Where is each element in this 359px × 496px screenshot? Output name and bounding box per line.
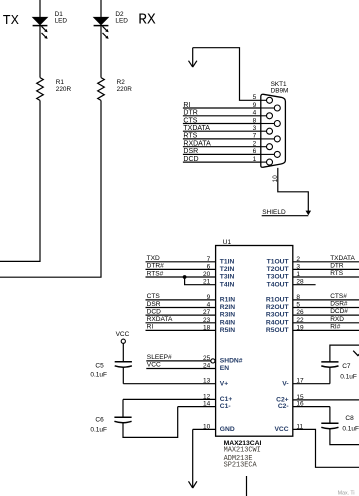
svg-text:8: 8 <box>296 294 300 301</box>
svg-text:18: 18 <box>203 324 211 331</box>
svg-text:C2-: C2- <box>278 403 289 410</box>
svg-text:R2: R2 <box>117 79 126 86</box>
svg-text:GND: GND <box>220 426 235 433</box>
svg-text:CTS: CTS <box>147 293 161 300</box>
net label RI / wire to U1 pin 18 (R5IN) <box>146 324 216 331</box>
inversion bubble on SHDN# pin 25 <box>211 359 215 363</box>
svg-text:28: 28 <box>296 279 304 286</box>
svg-text:3: 3 <box>253 125 257 132</box>
svg-text:1: 1 <box>253 156 257 163</box>
svg-text:VCC: VCC <box>274 426 288 433</box>
svg-text:RXD: RXD <box>330 316 344 323</box>
net label DCD / wire to U1 pin 27 (R3IN) <box>146 308 216 315</box>
svg-text:T4IN: T4IN <box>220 281 235 288</box>
net label VCC / wire to U1 pin 24 (EN) <box>146 362 215 369</box>
svg-text:8: 8 <box>253 117 257 124</box>
net label DSR / wire to U1 pin 4 (R2IN) <box>146 301 216 308</box>
svg-text:VCC: VCC <box>116 331 130 338</box>
svg-text:T1OUT: T1OUT <box>267 258 290 265</box>
wire stub below U1 <box>246 476 248 496</box>
svg-text:RX: RX <box>138 13 156 29</box>
svg-text:R1OUT: R1OUT <box>266 297 290 304</box>
wire DB9 shell to SHIELD <box>278 168 309 214</box>
svg-text:26: 26 <box>296 309 304 316</box>
svg-text:C6: C6 <box>95 416 104 423</box>
capacitor C7 <box>321 362 338 367</box>
svg-text:VCC: VCC <box>147 362 161 369</box>
label D1 <box>55 11 68 24</box>
resistor R2 220R <box>98 78 105 101</box>
net label TXDATA / wire to DB9 pin 3 <box>183 125 261 132</box>
label C5 <box>90 362 107 378</box>
net label RXDATA / wire to DB9 pin 2 <box>183 141 261 148</box>
svg-text:R2IN: R2IN <box>220 304 235 311</box>
svg-text:U1: U1 <box>223 239 232 246</box>
svg-text:0.1uF: 0.1uF <box>340 374 357 381</box>
net label DTR# / wire to U1 pin 6 (T2IN) <box>146 263 216 270</box>
wire U1 pin 8 (R1OUT) <box>293 299 359 301</box>
wire D1 anode <box>39 0 41 17</box>
wire U1 pin 17 (V-) <box>293 383 330 385</box>
wire U1 pin 3 (T2OUT) <box>293 268 359 270</box>
svg-text:T2IN: T2IN <box>220 266 235 273</box>
svg-text:T3IN: T3IN <box>220 274 235 281</box>
svg-text:T2OUT: T2OUT <box>267 266 290 273</box>
wire VCC to C5 <box>122 343 124 362</box>
svg-text:T4OUT: T4OUT <box>267 281 290 288</box>
wire D2 cathode to R2 <box>100 26 102 78</box>
svg-text:Max. Ti: Max. Ti <box>338 491 355 496</box>
svg-text:RXDATA: RXDATA <box>147 316 173 323</box>
wire U1 pin 1 (T3OUT) <box>293 276 359 278</box>
svg-text:EN: EN <box>220 365 229 372</box>
svg-text:C1-: C1- <box>220 403 231 410</box>
svg-text:T3OUT: T3OUT <box>267 274 290 281</box>
DB9 pin circles right column (pins 9,8,7,6) <box>261 105 281 157</box>
svg-text:11: 11 <box>296 423 303 430</box>
svg-text:10: 10 <box>272 175 279 183</box>
svg-text:CTS#: CTS# <box>330 293 347 300</box>
wire C5 to V+ <box>122 368 124 384</box>
wire C1- pin 14 <box>178 406 216 408</box>
svg-text:R3IN: R3IN <box>220 312 235 319</box>
svg-text:0.1uF: 0.1uF <box>90 426 107 433</box>
svg-text:R1IN: R1IN <box>220 297 235 304</box>
svg-text:V-: V- <box>282 380 288 387</box>
label D2 <box>115 11 128 24</box>
wire U1 pin 2 (T1OUT) <box>293 261 359 263</box>
svg-text:DTR#: DTR# <box>147 263 165 270</box>
svg-text:R1: R1 <box>56 79 65 86</box>
svg-text:C8: C8 <box>345 415 354 422</box>
shield arrowhead <box>306 211 312 216</box>
net label DSR / wire to DB9 pin 6 <box>183 148 261 155</box>
svg-text:24: 24 <box>203 363 211 370</box>
capacitor C5 <box>115 362 132 367</box>
svg-text:RTS: RTS <box>330 270 344 277</box>
net label CTS / wire to U1 pin 9 (R1IN) <box>146 293 216 300</box>
DB9 pin circles left column (pins 5,4,3,2,1) <box>261 97 273 165</box>
resistor R1 220R <box>37 78 44 101</box>
svg-text:0.1uF: 0.1uF <box>90 371 107 378</box>
label R1 <box>56 79 72 93</box>
svg-text:2: 2 <box>296 256 300 263</box>
svg-text:2: 2 <box>253 141 257 148</box>
wire top rail to C7 <box>330 345 359 362</box>
net label SLEEP# / wire to U1 pin 25 (SHDN#) <box>146 354 210 361</box>
wire R2 to left edge <box>0 100 101 277</box>
svg-text:TX: TX <box>3 14 19 29</box>
LED D2 <box>94 17 109 39</box>
svg-text:LED: LED <box>115 17 128 24</box>
wire R1 to left edge <box>0 100 40 261</box>
net label RI / wire to DB9 pin 9 <box>183 102 261 109</box>
svg-text:23: 23 <box>203 317 211 324</box>
wire ground to DB9 pin 5 <box>193 48 261 101</box>
connector SKT1 DB9M outline <box>261 94 286 167</box>
net label RXDATA / wire to U1 pin 23 (R4IN) <box>146 316 216 323</box>
wire RTS# to T4IN pin 21 <box>185 277 216 285</box>
stub wire U1 pin 28 (T4OUT) <box>293 284 316 286</box>
svg-text:SHIELD: SHIELD <box>262 209 286 216</box>
power symbol VCC <box>116 331 130 344</box>
svg-text:SHDN#: SHDN# <box>220 358 243 365</box>
wire C7 to V- <box>329 368 331 384</box>
net label DCD / wire to DB9 pin 1 <box>183 156 261 163</box>
IC U1 body <box>216 246 293 437</box>
svg-text:TXD: TXD <box>147 255 160 262</box>
wire D1 cathode to R1 <box>39 26 41 78</box>
svg-text:DCD: DCD <box>147 308 162 315</box>
svg-text:17: 17 <box>296 378 304 385</box>
svg-text:22: 22 <box>296 317 304 324</box>
ground arrow (U1 GND) <box>189 429 197 488</box>
svg-text:V+: V+ <box>220 380 228 387</box>
net label TXD / wire to U1 pin 7 (T1IN) <box>146 255 216 262</box>
wire C6 to C1- <box>123 407 178 438</box>
wire U1 pin 11 (VCC) to rail <box>293 429 359 467</box>
svg-text:5: 5 <box>296 302 300 309</box>
wire V+ pin 13 <box>123 383 215 385</box>
svg-text:20: 20 <box>203 271 211 278</box>
svg-text:DB9M: DB9M <box>271 88 289 95</box>
svg-text:1: 1 <box>296 271 300 278</box>
wire C1+ pin 12 <box>123 398 216 400</box>
wire U1 pin 15 (C2+) <box>293 399 359 401</box>
svg-text:220R: 220R <box>117 86 133 93</box>
svg-text:6: 6 <box>253 148 257 155</box>
svg-text:6: 6 <box>207 263 211 270</box>
svg-text:3: 3 <box>296 263 300 270</box>
svg-text:C1+: C1+ <box>220 396 233 403</box>
label C8 <box>342 415 359 433</box>
svg-text:27: 27 <box>203 309 211 316</box>
svg-text:RI: RI <box>147 324 154 331</box>
svg-text:DSR#: DSR# <box>330 301 348 308</box>
svg-text:LED: LED <box>55 17 68 24</box>
svg-text:R3OUT: R3OUT <box>266 312 290 319</box>
svg-text:R4OUT: R4OUT <box>266 319 290 326</box>
wire D2 anode <box>100 0 102 17</box>
svg-text:R5OUT: R5OUT <box>266 327 290 334</box>
svg-text:4: 4 <box>207 302 211 309</box>
svg-text:DCD#: DCD# <box>330 308 348 315</box>
junction on RTS# line <box>183 275 187 279</box>
label R2 <box>117 79 133 93</box>
svg-text:0.1uF: 0.1uF <box>342 425 359 432</box>
cropped component at right edge <box>353 351 359 356</box>
wire GND pin 10 <box>193 428 216 430</box>
wire C8 to bottom rail <box>330 429 359 445</box>
svg-text:220R: 220R <box>56 86 72 93</box>
svg-text:5: 5 <box>253 94 257 101</box>
svg-text:R5IN: R5IN <box>220 327 235 334</box>
wire U1 pin 16 (C2-) <box>293 406 330 408</box>
capacitor C6 <box>114 417 131 422</box>
wire U1 pin 5 (R2OUT) <box>293 307 359 309</box>
svg-text:C7: C7 <box>342 363 351 370</box>
svg-text:19: 19 <box>296 324 304 331</box>
svg-text:RTS#: RTS# <box>147 270 164 277</box>
svg-text:16: 16 <box>296 401 304 408</box>
LED D1 <box>33 17 48 39</box>
svg-text:4: 4 <box>253 110 257 117</box>
svg-text:9: 9 <box>207 294 211 301</box>
ground arrow (DB9 pin 5) <box>189 48 197 67</box>
svg-text:R2OUT: R2OUT <box>266 304 290 311</box>
svg-text:7: 7 <box>253 133 257 140</box>
wire U1 pin 26 (R3OUT) <box>293 314 359 316</box>
svg-text:TXDATA: TXDATA <box>330 255 355 262</box>
svg-text:C5: C5 <box>95 362 104 369</box>
net label SHIELD <box>262 209 309 216</box>
wire U1 pin 19 (R5OUT) <box>293 329 359 331</box>
wire C2- to C8 <box>329 407 331 424</box>
svg-text:9: 9 <box>253 102 257 109</box>
net label DTR / wire to DB9 pin 4 <box>183 110 261 117</box>
svg-text:SP213ECA: SP213ECA <box>224 462 258 470</box>
svg-text:MAX213CWI: MAX213CWI <box>224 446 261 454</box>
svg-text:RI#: RI# <box>330 323 341 330</box>
wire C1+ to C6 <box>122 399 124 417</box>
capacitor C8 <box>321 423 338 428</box>
svg-text:DTR: DTR <box>330 262 344 269</box>
net label CTS / wire to DB9 pin 8 <box>183 117 261 124</box>
svg-text:SLEEP#: SLEEP# <box>147 354 172 361</box>
svg-text:T1IN: T1IN <box>220 258 235 265</box>
label C6 <box>90 416 107 433</box>
net label RTS# / wire to U1 pin 20 (T3IN) <box>146 270 216 277</box>
svg-text:25: 25 <box>203 355 211 362</box>
svg-text:DSR: DSR <box>147 301 161 308</box>
net label RTS / wire to DB9 pin 7 <box>183 133 261 140</box>
svg-text:R4IN: R4IN <box>220 319 235 326</box>
wire U1 pin 22 (R4OUT) <box>293 322 359 324</box>
svg-text:7: 7 <box>207 256 211 263</box>
label C7 <box>340 363 357 381</box>
